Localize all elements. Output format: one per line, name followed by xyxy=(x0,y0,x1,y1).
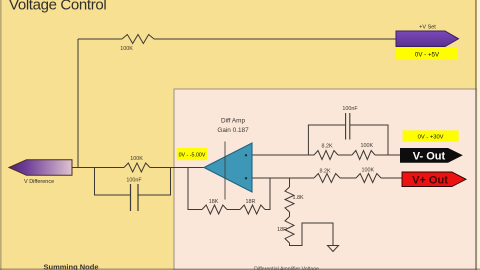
wire feedback bottom row xyxy=(188,168,270,210)
resistor R4 18R xyxy=(240,199,265,214)
svg-text:Gain 0.187: Gain 0.187 xyxy=(217,127,249,134)
svg-text:0V - +5V: 0V - +5V xyxy=(415,52,440,59)
label 0V - -5.00V xyxy=(177,148,208,160)
label 0V - +5V xyxy=(396,48,458,60)
op-amp U1 xyxy=(204,118,252,193)
wire row2 (to V+ Out) xyxy=(252,177,402,179)
wire to ground xyxy=(290,223,334,246)
svg-text:18R: 18R xyxy=(277,227,287,233)
svg-text:Voltage Control: Voltage Control xyxy=(9,0,106,14)
ground xyxy=(328,246,339,252)
svg-text:+V Set: +V Set xyxy=(419,25,436,31)
svg-text:V+ Out: V+ Out xyxy=(412,174,448,186)
svg-text:8.2K: 8.2K xyxy=(321,143,332,149)
wire from R1 to +V Set arrow xyxy=(154,38,397,40)
wire capacitor C2 loop xyxy=(308,125,388,155)
resistor R10 18R xyxy=(277,217,294,244)
svg-text:100nF: 100nF xyxy=(126,178,142,184)
frame edge artifacts xyxy=(0,0,2,270)
wire crossing op-amp xyxy=(224,142,226,200)
resistor R7 8.2K row2 xyxy=(314,169,340,183)
svg-text:100K: 100K xyxy=(362,168,375,174)
wire capacitor C1 loop xyxy=(95,168,171,196)
node V+ Out arrow xyxy=(402,172,466,187)
capacitor C2 100nF xyxy=(342,106,358,140)
svg-text:100K: 100K xyxy=(120,46,133,52)
svg-text:100nF: 100nF xyxy=(342,106,358,112)
svg-text:0V - -5.00V: 0V - -5.00V xyxy=(179,153,206,159)
wire 1.8K stub xyxy=(289,178,291,187)
svg-text:0V - +30V: 0V - +30V xyxy=(418,135,444,141)
resistor R3 18K xyxy=(202,199,227,214)
resistor R9 1.8K xyxy=(285,187,304,212)
resistor R8 100K row2 xyxy=(356,168,381,183)
svg-text:1.8K: 1.8K xyxy=(293,195,304,201)
svg-text:18K: 18K xyxy=(209,199,219,205)
op-amp input pin marks xyxy=(245,154,247,156)
svg-text:Diff Amp: Diff Amp xyxy=(221,118,245,125)
svg-text:V Difference: V Difference xyxy=(24,179,54,185)
resistor R5 8.2K row1 xyxy=(314,143,338,159)
svg-text:100K: 100K xyxy=(361,143,374,149)
label 0V - +30V xyxy=(403,130,459,141)
svg-text:V- Out: V- Out xyxy=(413,150,446,162)
wire row1 (to V- Out) xyxy=(252,154,400,156)
node V- Out arrow xyxy=(400,148,463,163)
svg-text:18R: 18R xyxy=(246,199,256,205)
pink panel (Differential Amplifier box) xyxy=(174,89,477,270)
wire between R9 and R10 xyxy=(289,212,291,217)
wire vertical left rail xyxy=(77,39,79,168)
resistor R1 100K (top) xyxy=(120,35,154,53)
capacitor C1 100nF xyxy=(126,178,142,212)
resistor R6 100K row1 xyxy=(352,143,375,160)
wire from node A to resistor R1 xyxy=(78,38,122,40)
svg-text:100K: 100K xyxy=(130,156,143,162)
svg-text:8.2K: 8.2K xyxy=(319,169,330,175)
node V Difference arrow xyxy=(9,160,72,185)
node +V Set arrow xyxy=(396,25,459,47)
wire summing node line (V Difference to op-amp) xyxy=(72,167,204,169)
resistor R2 100K (summing) xyxy=(124,156,150,172)
